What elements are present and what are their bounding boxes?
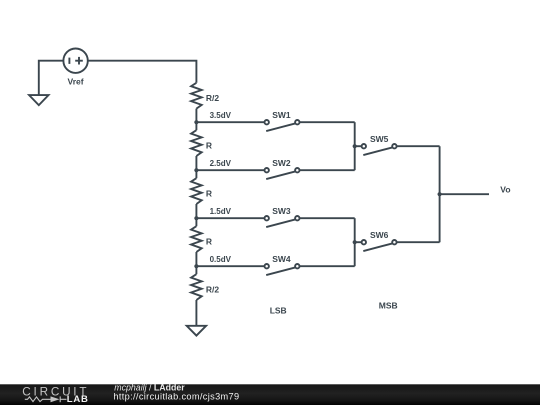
wire: [355, 145, 362, 147]
svg-text:Vref: Vref: [68, 77, 84, 87]
CircuitLab logo resistor-diode motif: [25, 396, 67, 402]
wire: [195, 109, 197, 131]
wire: [196, 169, 264, 171]
wire: [355, 241, 362, 243]
svg-text:3.5dV: 3.5dV: [210, 111, 232, 120]
wire: [195, 156, 197, 178]
svg-text:SW5: SW5: [370, 134, 389, 144]
svg-text:MSB: MSB: [379, 300, 398, 310]
junction SW5 input: [353, 144, 357, 148]
resistor R (2nd): [191, 130, 202, 156]
wire: [300, 217, 355, 219]
wire: [300, 265, 355, 267]
switch SW5: [362, 144, 397, 155]
switch SW4: [265, 264, 300, 275]
wire: [195, 252, 197, 274]
wire: [196, 217, 264, 219]
ground: [29, 95, 48, 105]
ground (bottom): [187, 326, 206, 336]
wire: [397, 241, 440, 243]
resistor R (4th): [191, 226, 202, 252]
svg-text:SW3: SW3: [272, 206, 291, 216]
svg-text:R: R: [206, 141, 212, 151]
switch SW3: [265, 216, 300, 227]
svg-text:R: R: [206, 189, 212, 199]
svg-text:1.5dV: 1.5dV: [210, 207, 232, 216]
switch SW6: [362, 240, 397, 251]
wire: [196, 265, 264, 267]
svg-text:R/2: R/2: [206, 93, 220, 103]
svg-text:SW6: SW6: [370, 230, 389, 240]
svg-text:LSB: LSB: [270, 305, 287, 315]
node 2.5dV junction: [194, 168, 198, 172]
junction output: [438, 192, 442, 196]
junction SW6 input: [353, 240, 357, 244]
wire: [397, 145, 440, 147]
resistor R (3rd): [191, 178, 202, 204]
wire: [196, 121, 264, 123]
wire: [354, 122, 356, 170]
svg-text:R: R: [206, 237, 212, 247]
svg-text:2.5dV: 2.5dV: [210, 159, 232, 168]
wire: [300, 169, 355, 171]
svg-text:SW4: SW4: [272, 254, 291, 264]
svg-text:LAB: LAB: [67, 394, 89, 405]
svg-text:http://circuitlab.com/cjs3m79: http://circuitlab.com/cjs3m79: [113, 391, 239, 401]
wire: [300, 121, 355, 123]
wire: [195, 204, 197, 226]
resistor R/2 (top): [191, 83, 202, 109]
CircuitLab watermark bar: [0, 384, 540, 405]
node 1.5dV junction: [194, 216, 198, 220]
wire: [195, 300, 197, 326]
wire: [39, 61, 64, 95]
svg-text:R/2: R/2: [206, 285, 220, 295]
switch SW1: [265, 120, 300, 131]
resistor R/2 (bottom): [191, 274, 202, 300]
svg-text:Vo: Vo: [500, 184, 510, 194]
svg-text:SW1: SW1: [272, 110, 291, 120]
voltage source V1 Vref: [63, 49, 87, 73]
wire: [88, 61, 197, 83]
node 0.5dV junction: [194, 264, 198, 268]
svg-text:0.5dV: 0.5dV: [210, 255, 232, 264]
node 3.5dV junction: [194, 120, 198, 124]
wire output Vo: [440, 193, 489, 195]
wire: [439, 146, 441, 242]
wire: [354, 218, 356, 266]
svg-text:SW2: SW2: [272, 158, 291, 168]
switch SW2: [265, 168, 300, 179]
